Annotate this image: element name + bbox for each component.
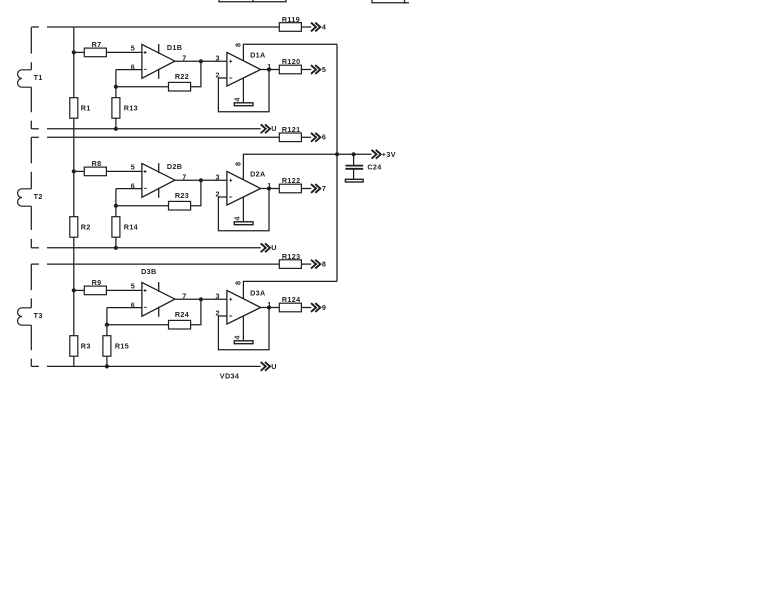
wire (top net to R121) [47, 136, 279, 138]
wire (cut-off tick) [404, 0, 406, 4]
resistor R2 [70, 217, 78, 238]
svg-text:6: 6 [131, 63, 135, 72]
wire [301, 263, 311, 265]
wire [301, 26, 311, 28]
svg-text:R8: R8 [92, 159, 102, 168]
svg-text:R9: R9 [92, 278, 102, 287]
wire (inverting divider column) [115, 189, 117, 248]
wire (pin 4 lead) [242, 197, 244, 222]
resistor R24 [169, 320, 191, 329]
wire (inverting divider column) [115, 70, 117, 129]
wire (feedback) [107, 324, 169, 326]
junction dot [199, 178, 203, 182]
wire (pin 2 stub) [218, 196, 227, 198]
op-amp D2A [227, 171, 261, 205]
svg-text:R15: R15 [115, 341, 129, 350]
connector U [261, 124, 270, 133]
op-amp D3B [142, 282, 175, 317]
wire (pin 6 stub) [116, 188, 142, 190]
svg-text:8: 8 [322, 260, 326, 269]
wire [74, 289, 85, 291]
svg-text:R1: R1 [81, 103, 91, 112]
svg-text:U: U [271, 362, 277, 371]
resistor R15 [103, 336, 111, 357]
junction dot [114, 127, 118, 131]
junction dot [72, 288, 76, 292]
resistor R119 [279, 23, 301, 32]
transformer T2 (dashed outline) [31, 137, 39, 248]
op-amp D3A [227, 290, 261, 324]
output connector 9 [311, 303, 320, 312]
connector U [261, 362, 270, 371]
wire [301, 136, 311, 138]
svg-text:8: 8 [234, 281, 243, 285]
resistor R121 [279, 133, 301, 142]
wire [301, 307, 311, 309]
wire (bottom net) [47, 128, 261, 130]
resistor R120 [279, 65, 301, 74]
winding T1 [18, 70, 32, 87]
svg-text:6: 6 [322, 133, 326, 142]
wire (to pin 5) [106, 51, 141, 53]
junction dot [114, 246, 118, 250]
resistor R22 [169, 82, 191, 91]
wire (unity feedback loop) [218, 308, 269, 350]
connector +3V [372, 150, 381, 159]
svg-text:D3A: D3A [250, 289, 265, 298]
svg-text:R121: R121 [282, 125, 301, 134]
junction dot [114, 204, 118, 208]
junction dot [72, 169, 76, 173]
wire (+3V feed) [337, 153, 372, 155]
svg-text:8: 8 [234, 43, 243, 47]
svg-text:R7: R7 [92, 40, 102, 49]
wire (cut-off tick) [252, 0, 254, 2]
svg-text:3: 3 [216, 54, 220, 63]
junction dot [267, 67, 271, 71]
svg-text:R120: R120 [282, 57, 301, 66]
winding T2 [18, 189, 32, 206]
wire [74, 51, 85, 53]
output connector 7 [311, 184, 320, 193]
svg-text:T2: T2 [34, 192, 43, 201]
resistor R7 [84, 48, 106, 57]
wire (to pin 5) [106, 170, 141, 172]
svg-text:R23: R23 [175, 191, 189, 200]
capacitor C24 [345, 154, 363, 179]
svg-text:T3: T3 [34, 311, 43, 320]
svg-text:5: 5 [131, 282, 135, 291]
wire (feedback) [116, 86, 169, 88]
resistor R23 [169, 201, 191, 210]
svg-text:+3V: +3V [382, 150, 396, 159]
junction dot [267, 186, 271, 190]
wire (cut-off component above, left) [219, 0, 286, 2]
connector U [261, 243, 270, 252]
svg-text:9: 9 [322, 303, 326, 312]
wire (bottom net) [47, 247, 261, 249]
svg-text:6: 6 [131, 301, 135, 310]
wire (pin 2 stub) [218, 315, 227, 317]
svg-text:6: 6 [131, 182, 135, 191]
svg-text:T1: T1 [34, 73, 43, 82]
svg-text:7: 7 [322, 184, 326, 193]
svg-text:R2: R2 [81, 222, 91, 231]
output connector 8 [311, 260, 320, 269]
svg-text:R22: R22 [175, 72, 189, 81]
junction dot [105, 323, 109, 327]
ground (pin 4) [234, 103, 253, 106]
wire (cut-off component above, right) [372, 0, 409, 3]
resistor R1 [70, 98, 78, 119]
svg-text:3: 3 [216, 173, 220, 182]
svg-text:3: 3 [216, 292, 220, 301]
svg-text:D1B: D1B [167, 43, 182, 52]
ground (C24) [345, 179, 363, 182]
svg-text:R24: R24 [175, 310, 189, 319]
wire (pin 8 to +3V rail) [243, 44, 337, 61]
svg-text:R3: R3 [81, 341, 91, 350]
wire (top net to R123) [47, 263, 279, 265]
svg-text:4: 4 [233, 216, 242, 220]
svg-text:5: 5 [131, 44, 135, 53]
junction dot [72, 50, 76, 54]
wire (unity feedback loop) [218, 189, 269, 231]
junction dot [352, 152, 356, 156]
svg-text:8: 8 [234, 162, 243, 166]
wire [301, 69, 311, 71]
svg-text:VD34: VD34 [220, 371, 239, 380]
wire (pin7 to pin3) [175, 179, 227, 181]
wire (output) [261, 69, 280, 71]
junction dot [267, 305, 271, 309]
svg-text:C24: C24 [367, 162, 381, 171]
svg-text:R124: R124 [282, 295, 301, 304]
wire (pin 6 stub) [107, 307, 142, 309]
wire (inverting divider column) [106, 308, 108, 367]
wire [301, 188, 311, 190]
wire (unity feedback loop) [218, 70, 269, 112]
junction dot [114, 85, 118, 89]
output connector 4 [311, 23, 320, 32]
wire (to pin 5) [106, 289, 141, 291]
svg-text:D3B: D3B [141, 267, 156, 276]
output connector 6 [311, 133, 320, 142]
resistor R8 [84, 167, 106, 176]
svg-text:4: 4 [322, 22, 326, 31]
wire [74, 170, 85, 172]
wire (bottom net) [47, 365, 261, 367]
resistor R9 [84, 286, 106, 295]
junction dot [199, 297, 203, 301]
resistor R13 [112, 98, 120, 119]
junction dot [105, 364, 109, 368]
svg-text:R14: R14 [124, 222, 138, 231]
wire (pin 6 stub) [116, 69, 142, 71]
ground (pin 4) [234, 341, 253, 344]
ground (pin 4) [234, 222, 253, 225]
svg-text:5: 5 [131, 163, 135, 172]
wire (feedback) [116, 205, 169, 207]
svg-text:U: U [271, 124, 277, 133]
wire (pin 8 to +3V rail) [243, 154, 337, 180]
svg-text:R13: R13 [124, 103, 138, 112]
svg-text:R123: R123 [282, 252, 301, 261]
op-amp D1A [227, 52, 261, 86]
transformer T1 (dashed outline) [31, 27, 39, 129]
winding T3 [18, 308, 32, 325]
wire (pin 4 lead) [242, 78, 244, 103]
wire (pin 4 lead) [242, 316, 244, 341]
wire (feedback up to output) [191, 299, 201, 324]
op-amp D2B [142, 163, 175, 198]
svg-text:U: U [271, 243, 277, 252]
op-amp D1B [142, 44, 175, 79]
output connector 5 [311, 65, 320, 74]
resistor R122 [279, 184, 301, 193]
wire (output) [261, 307, 280, 309]
junction dot [199, 59, 203, 63]
wire (pin7 to pin3) [175, 60, 227, 62]
svg-text:4: 4 [233, 335, 242, 339]
wire (top net to R119) [47, 26, 279, 28]
resistor R123 [279, 260, 301, 269]
svg-text:R119: R119 [282, 15, 300, 24]
wire (pin7 to pin3) [175, 298, 227, 300]
wire (pin 2 stub) [218, 77, 227, 79]
svg-text:D2A: D2A [250, 170, 265, 179]
svg-text:D1A: D1A [250, 51, 265, 60]
svg-text:5: 5 [322, 65, 326, 74]
svg-text:4: 4 [233, 97, 242, 101]
wire (feedback up to output) [191, 180, 201, 205]
resistor R124 [279, 303, 301, 312]
junction dot [335, 152, 339, 156]
wire (output) [261, 188, 280, 190]
resistor R14 [112, 217, 120, 238]
svg-text:R122: R122 [282, 176, 301, 185]
resistor R3 [70, 336, 78, 357]
svg-text:D2B: D2B [167, 162, 182, 171]
transformer T3 (dashed outline) [31, 264, 39, 366]
wire (feedback up to output) [191, 61, 201, 86]
wire (+3V vertical rail) [336, 44, 338, 281]
wire (pin 8 to +3V rail) [243, 281, 337, 299]
wire (left column bus) [73, 27, 75, 366]
